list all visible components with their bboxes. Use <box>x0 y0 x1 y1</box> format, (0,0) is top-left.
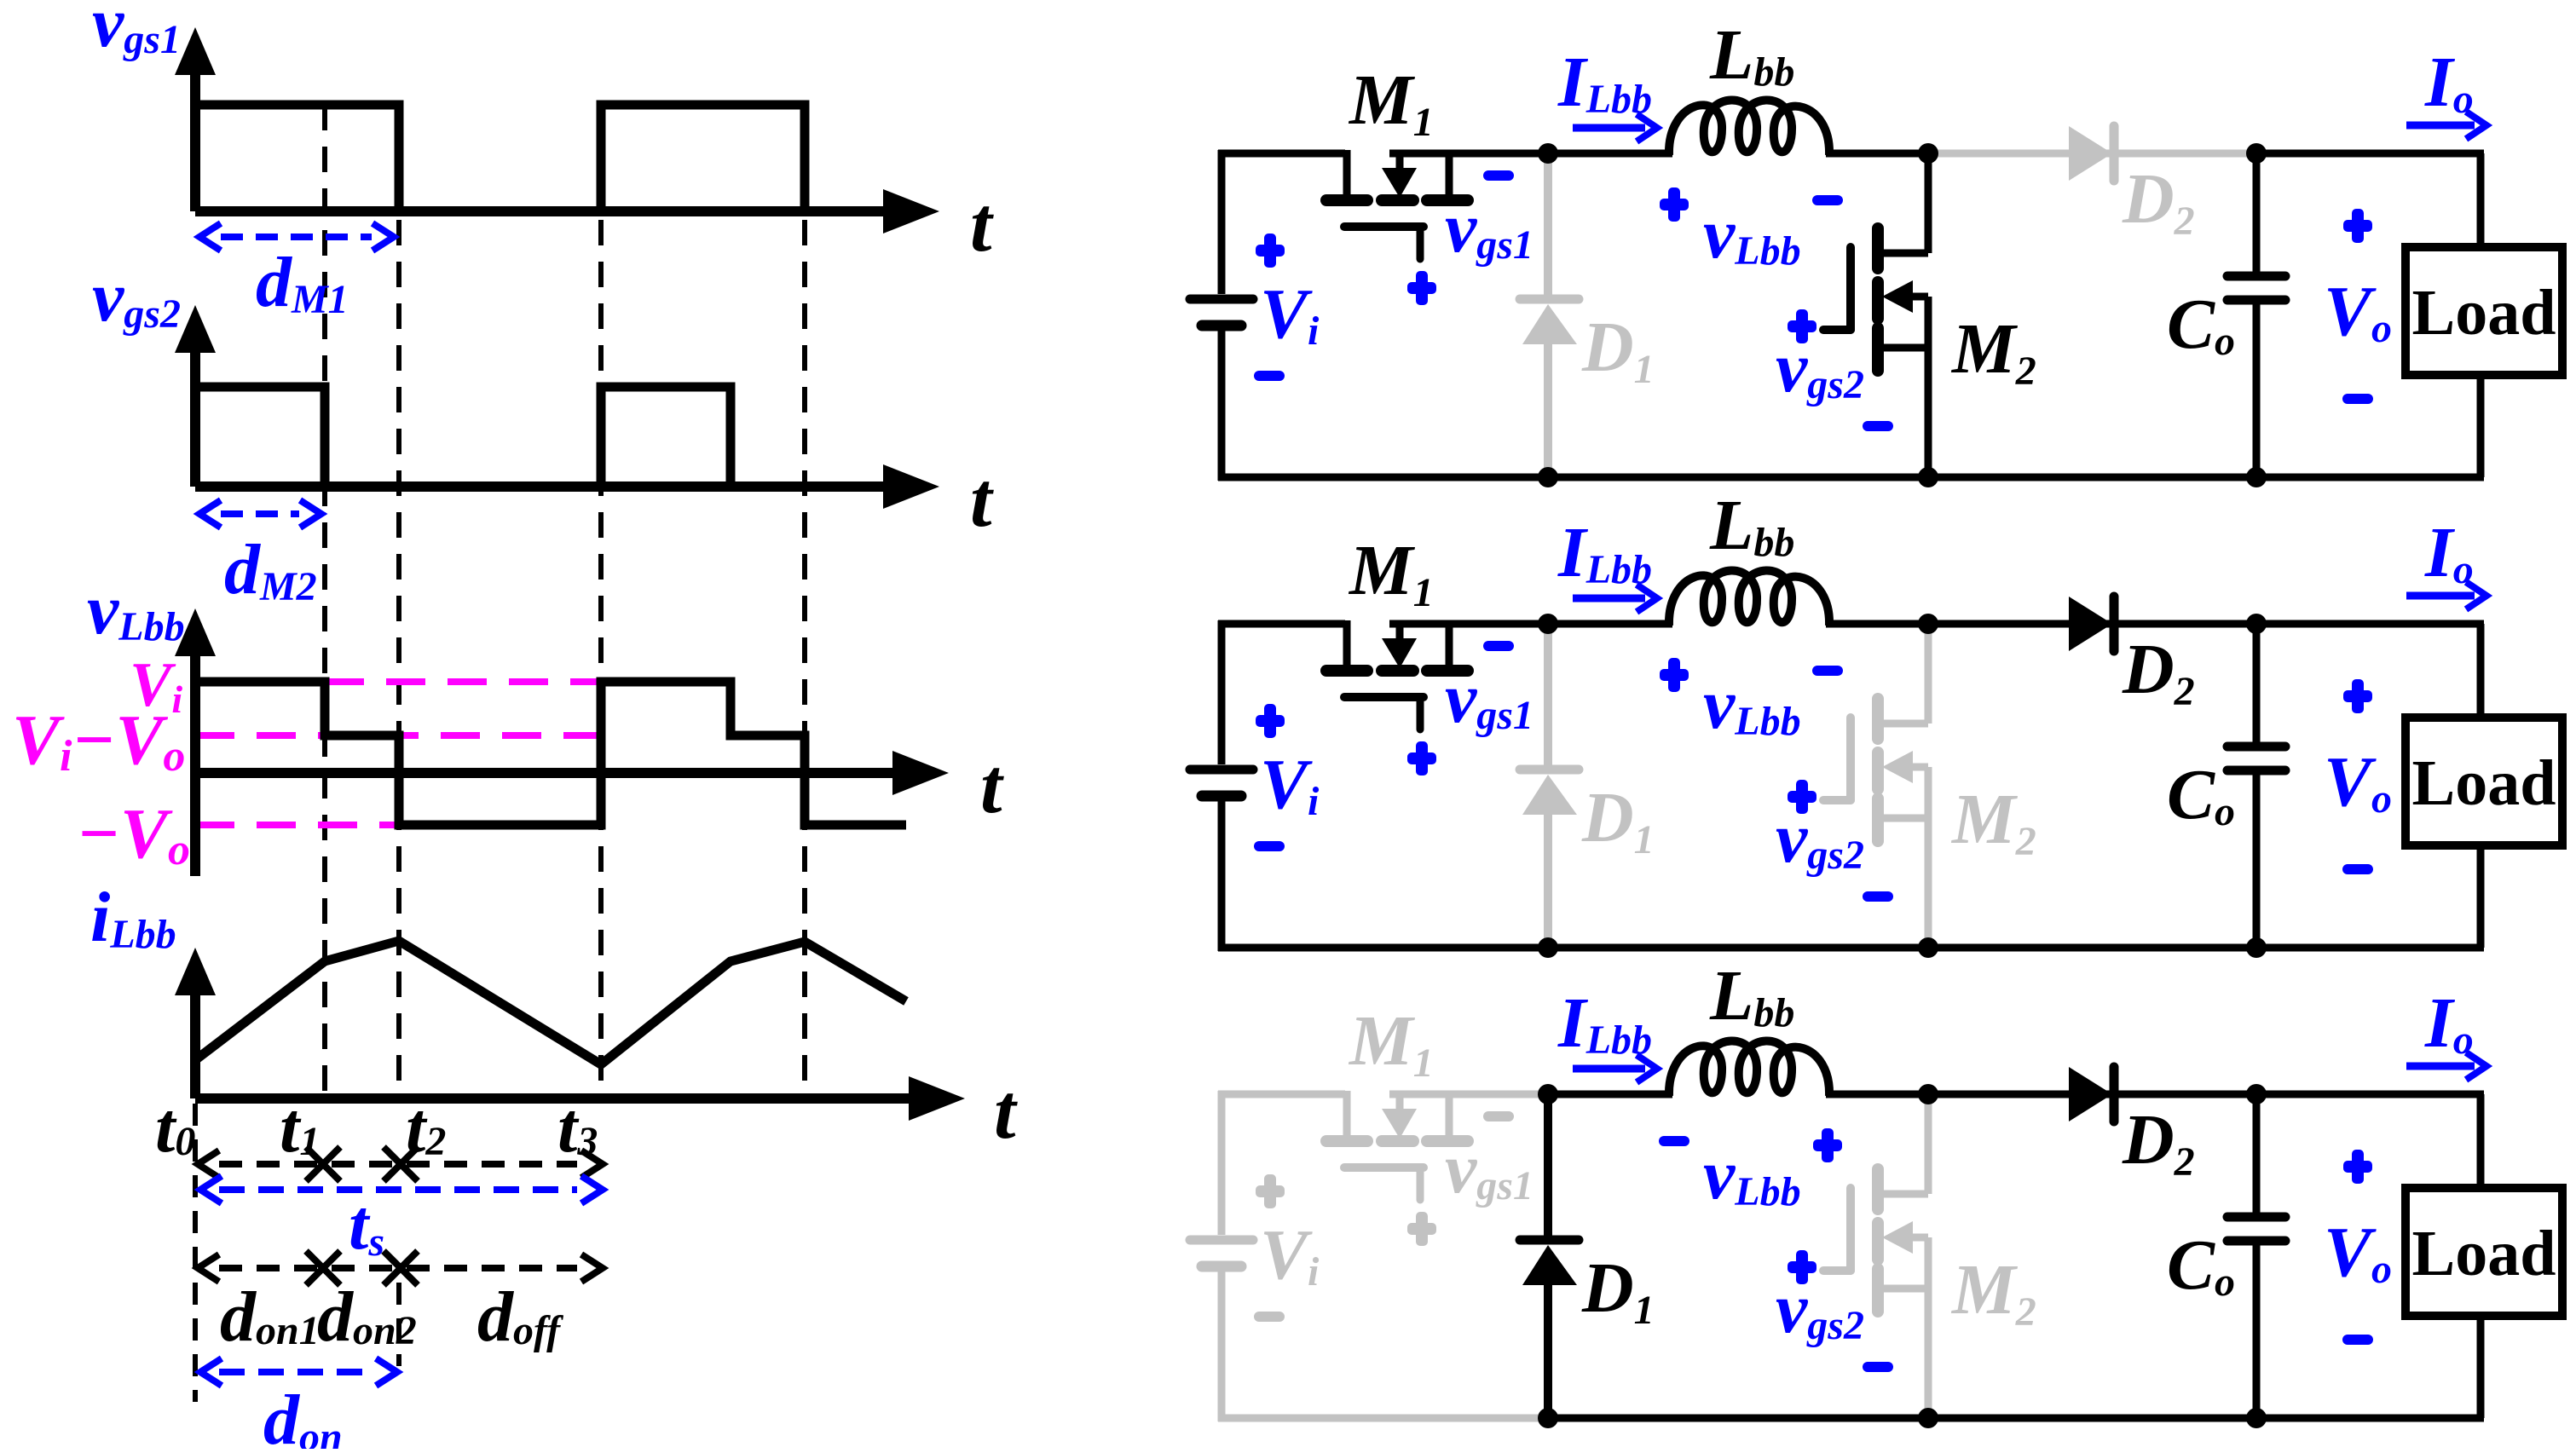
svg-text:Load: Load <box>2412 747 2556 819</box>
svg-text:Vi−Vo: Vi−Vo <box>12 701 185 781</box>
svg-text:Load: Load <box>2412 277 2556 349</box>
svg-text:Load: Load <box>2412 1218 2556 1289</box>
svg-text:t: t <box>980 742 1004 829</box>
svg-text:t: t <box>970 456 994 543</box>
svg-text:t: t <box>970 181 994 268</box>
svg-text:t: t <box>994 1068 1018 1155</box>
